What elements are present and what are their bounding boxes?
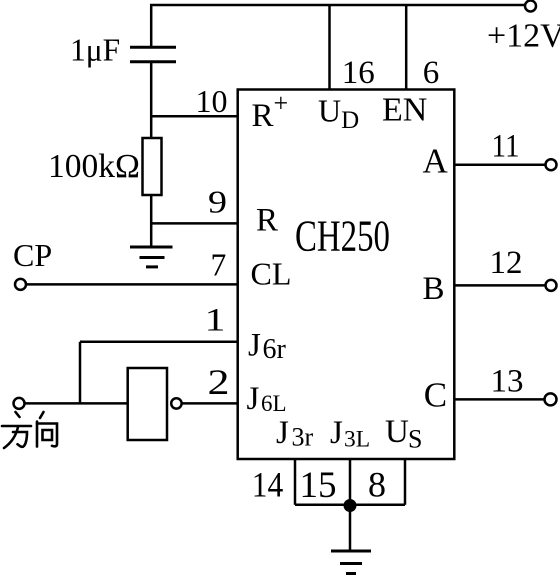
svg-text:10: 10 [196,83,228,119]
wire terminal to inverter [25,402,129,405]
svg-text:S: S [408,424,422,453]
wire pin 14 stub [294,459,297,505]
char fang [16,412,20,417]
svg-text:13: 13 [491,363,524,399]
wire pin 16 stub [328,5,331,90]
svg-text:+12V: +12V [487,17,560,54]
svg-text:U: U [385,414,409,450]
svg-text:A: A [423,142,449,181]
svg-text:11: 11 [492,129,520,165]
svg-text:CH250: CH250 [295,211,390,260]
svg-text:100kΩ: 100kΩ [48,148,140,185]
svg-text:6r: 6r [263,334,287,365]
svg-text:R: R [256,203,278,239]
label fangxiang (Chinese: direction), drawn as strokes [2,412,57,448]
IC U1 CH250 outline [238,90,455,460]
inverter U2 box [128,368,167,440]
inverter bubble [171,398,181,408]
svg-text:2: 2 [208,362,230,402]
svg-text:14: 14 [252,464,283,504]
svg-text:16: 16 [342,55,375,91]
svg-text:EN: EN [382,91,427,128]
svg-text:1μF: 1μF [70,33,120,68]
wire pin 12 B [455,284,546,287]
wire resistor to ground [150,195,153,247]
svg-text:9: 9 [208,184,227,219]
terminal A [546,159,557,170]
terminal C [545,393,557,405]
resistor R1 100k [143,138,162,195]
wire pin 11 A [455,163,546,166]
svg-text:6: 6 [423,55,440,91]
char xiang [40,412,44,418]
svg-text:CL: CL [251,255,292,291]
wire to ground [349,505,352,551]
svg-text:3r: 3r [292,422,314,451]
svg-text:1: 1 [205,303,226,339]
wire pin 1 [80,341,238,344]
svg-text:15: 15 [300,465,337,506]
wire branch to inverter input [79,342,82,404]
wire pin 7 CP [26,283,238,286]
svg-text:12: 12 [490,245,523,281]
wire pin 9 [151,222,238,225]
wire pin 2 [182,402,238,405]
svg-text:8: 8 [368,464,386,504]
svg-text:7: 7 [211,248,227,283]
terminal +12V [525,1,536,12]
svg-text:C: C [424,375,447,414]
junction dot bottom bus [344,499,357,512]
svg-text:J: J [247,381,260,417]
ground G2 [331,550,371,553]
ground G1 [130,246,173,249]
wire pin 6 stub [405,5,408,90]
svg-text:CP: CP [13,237,52,273]
svg-text:J: J [276,415,289,451]
wire cap to resistor [150,62,153,139]
svg-text:J: J [248,328,261,364]
terminal B [546,280,557,291]
wire pin 8 stub [404,459,407,505]
svg-text:B: B [423,271,445,307]
terminal CP [15,279,26,290]
capacitor C1 1uF plates [130,46,176,49]
svg-text:J: J [330,415,343,451]
wire pin 15 stub [349,459,352,505]
wire bottom bus [295,504,405,507]
wire pin 13 C [455,398,545,401]
svg-text:6L: 6L [261,391,287,416]
svg-text:3L: 3L [344,427,370,453]
wire pin 10 [151,115,238,118]
wire top rail [151,5,524,47]
terminal fangxiang [14,398,25,409]
